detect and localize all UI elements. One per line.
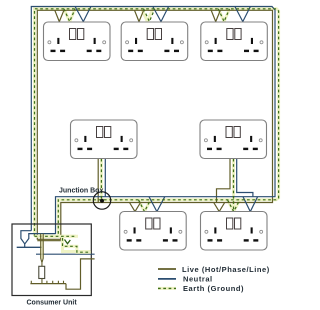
earth sheath: socket drops and CU runs [100,159,103,200]
live V loop socket SK3 [211,10,220,21]
socket outlet SK5 [200,120,267,159]
consumer unit enclosure [12,224,91,296]
CU neutral supply tail [36,253,95,255]
CU live wire into fuse [41,263,43,267]
earth V loop socket SK3 [218,9,229,22]
live V loop socket SK6 [130,203,141,212]
CU neutral bar [17,246,42,248]
earth V loop socket SK7 [228,200,240,212]
junction box node dot [100,199,104,203]
live V loop socket SK2 [135,10,144,21]
svg-text:Earth (Ground): Earth (Ground) [183,284,244,293]
neutral drop wire socket SK4 to junction box [104,159,106,197]
junction box circle [93,192,110,209]
earth sheath: V loops top row [64,9,230,22]
live (hot) ring wire: top run, left run, right run, bottom bundle [37,10,272,240]
CU earth arrow marker [65,240,71,244]
CU fuse F1 [39,266,45,278]
neutral V loop socket SK3 [235,7,251,22]
CU live link from ring-bottom to fuse (double wire) [37,234,61,263]
legend earth dashes swatch [158,287,176,289]
CU live supply tail [66,259,95,289]
live drop wire socket SK4 to junction box [97,159,99,203]
neutral drop wire socket SK5 to ring [237,159,253,197]
legend live swatch [158,268,176,270]
svg-text:Junction Box: Junction Box [59,188,103,195]
CU live busbar comb [30,283,66,285]
socket outlet SK7 [201,212,268,251]
earth V loop socket SK6 [139,200,151,212]
socket outlet SK3 [201,22,267,61]
earth sheath: V loops bottom row [139,200,240,212]
neutral V loop socket SK2 [153,7,169,22]
socket outlet SK2 [121,22,188,61]
earth V loop socket SK2 [144,9,155,22]
earth (ground) ring wire dashes: left/top/right/bottom [35,9,279,237]
earth sheath: legend swatch [158,287,176,290]
earth V loop socket SK1 [64,9,75,22]
earth drop wire socket SK5 to ring [233,159,235,212]
live V loop socket SK1 [55,10,64,21]
legend neutral swatch [158,278,176,280]
live V loop socket SK7 [214,203,225,212]
CU neutral link: ring-bottom branch / funnel right side [25,234,56,244]
live drop wire socket SK5 to ring [217,159,231,203]
CU neutral link: ring-left branch [21,231,31,248]
neutral V loop socket SK1 [75,7,91,22]
CU earth sheath run [35,236,91,252]
CU live double-wire pale core [38,234,61,259]
earth drop wire socket SK4 to junction box [100,159,102,200]
CU earth dashes: staircase to earth terminal [63,238,91,252]
svg-text:Live (Hot/Phase/Line): Live (Hot/Phase/Line) [182,265,270,274]
svg-text:Neutral: Neutral [183,274,213,283]
neutral ring wire: left run, top run, right run, bottom bundle [31,7,275,235]
svg-text:Consumer Unit: Consumer Unit [27,299,78,306]
neutral V loop socket SK6 [149,197,165,212]
CU earth dashes: horizontal from ring ends [35,235,77,237]
socket outlet SK4 [71,120,138,159]
socket outlet SK6 [120,212,187,251]
neutral V loop socket SK7 [243,197,258,212]
CU wire fuse to busbar [41,279,43,284]
socket outlet SK1 [44,22,111,61]
earth (ground) wire pale sheath: ring top/left/right/bottom runs [35,9,279,237]
